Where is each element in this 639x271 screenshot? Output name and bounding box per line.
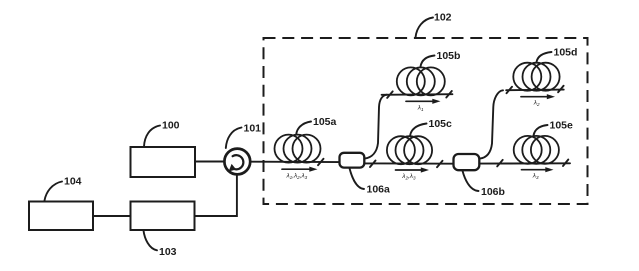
branch wire to 105d line	[480, 90, 503, 158]
splice tick	[507, 87, 513, 94]
coupler 106b	[454, 154, 480, 170]
splice tick	[318, 159, 324, 166]
svg-text:105c: 105c	[429, 118, 453, 130]
flow arrow lambda23	[396, 167, 430, 180]
circulator U101	[224, 149, 250, 175]
label 105e	[534, 120, 574, 136]
svg-text:104: 104	[64, 176, 82, 188]
rect 104	[29, 202, 93, 231]
coupler 106a	[340, 153, 365, 168]
wire circulator to 106a	[250, 161, 339, 163]
splice tick	[563, 160, 568, 167]
label 104	[45, 176, 82, 201]
coil 105d	[513, 63, 559, 91]
splice tick	[558, 86, 564, 93]
flow arrow lambda2	[521, 94, 555, 107]
coil 105c	[387, 136, 432, 164]
svg-text:λ2,λ3: λ2,λ3	[401, 173, 416, 181]
flow arrow lambda123	[282, 167, 318, 181]
svg-text:105b: 105b	[437, 50, 461, 62]
label 105a	[296, 116, 336, 134]
svg-text:105a: 105a	[313, 116, 337, 128]
label 106b	[463, 171, 505, 198]
wire 104 to 103	[93, 215, 131, 217]
rect 103	[131, 202, 195, 231]
splice tick	[370, 161, 376, 168]
label 101	[226, 123, 261, 149]
wire 100 to circulator	[195, 161, 224, 163]
rect 100	[131, 147, 196, 177]
branch wire to 105b line	[365, 95, 388, 159]
label 105b	[421, 50, 461, 67]
splice tick	[437, 161, 443, 168]
svg-text:105d: 105d	[554, 47, 578, 59]
wire 103 to circulator	[195, 176, 237, 217]
label 100	[144, 120, 180, 147]
svg-text:105e: 105e	[550, 120, 574, 132]
splice tick	[446, 91, 452, 98]
svg-text:106b: 106b	[481, 186, 505, 198]
flow arrow lambda1	[406, 99, 441, 113]
wire 106a to 106b	[365, 162, 454, 164]
svg-text:102: 102	[434, 12, 452, 24]
label 105c	[410, 118, 452, 136]
splice tick	[497, 160, 503, 167]
svg-text:λ2: λ2	[533, 99, 540, 107]
svg-text:λ1: λ1	[417, 105, 424, 113]
label 105d	[537, 47, 578, 63]
wire 106b to end	[480, 162, 571, 164]
coil 105e	[514, 136, 559, 164]
svg-text:101: 101	[244, 123, 262, 135]
upper wire 105b	[382, 93, 453, 96]
label 103	[144, 231, 177, 259]
splice tick	[387, 91, 393, 98]
svg-text:100: 100	[162, 120, 180, 132]
svg-text:λ1,λ2,λ3: λ1,λ2,λ3	[286, 173, 308, 181]
svg-text:λ3: λ3	[532, 172, 539, 180]
upper wire 105d	[506, 89, 564, 92]
enclosure 102 dashed box	[264, 38, 588, 204]
svg-text:103: 103	[159, 246, 177, 258]
flow arrow lambda3	[522, 167, 554, 180]
coil 105a	[275, 135, 321, 163]
label 106a	[350, 168, 391, 195]
svg-text:106a: 106a	[367, 184, 391, 196]
coil 105b	[397, 67, 445, 95]
label 102	[416, 12, 452, 38]
